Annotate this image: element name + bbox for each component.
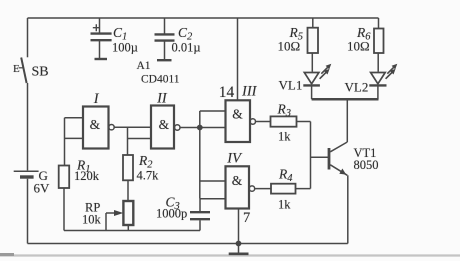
wire left rail middle: [27, 83, 29, 170]
capacitor C1 plates: [91, 34, 112, 41]
capacitor C2 leads: [164, 18, 166, 60]
capacitor C3 plates: [190, 212, 210, 219]
LED VL1: [304, 73, 319, 84]
wire left rail lower: [27, 179, 29, 244]
switch SB: [21, 58, 26, 84]
ground: [238, 244, 240, 254]
gate IV output bubble: [249, 186, 254, 191]
svg-text:CD4011: CD4011: [141, 73, 180, 85]
svg-text:IV: IV: [226, 150, 243, 166]
svg-text:100µ: 100µ: [112, 41, 138, 55]
svg-text:II: II: [156, 91, 168, 107]
LED VL1 arrows: [320, 67, 328, 78]
wire collector riser: [346, 99, 348, 142]
capacitor C1 plus sign: [93, 24, 100, 31]
wire RP bottom: [127, 225, 129, 231]
gate IV input stubs: [200, 181, 226, 199]
potentiometer RP: [123, 201, 133, 225]
LED VL2: [371, 73, 386, 84]
battery G plate short: [20, 175, 34, 178]
svg-text:10Ω: 10Ω: [347, 38, 370, 53]
svg-text:7: 7: [243, 210, 250, 226]
svg-text:0.01µ: 0.01µ: [172, 41, 201, 55]
resistor R5 leads: [311, 18, 314, 72]
resistor R3 leads: [256, 121, 311, 123]
wire top rail: [28, 17, 379, 19]
gate III input bracket: [200, 111, 226, 128]
svg-text:&: &: [90, 117, 101, 132]
wire gateI-out to gateII: [114, 126, 151, 128]
wire pin7 lead: [238, 209, 240, 244]
gate II box: [151, 106, 174, 149]
gate I input bracket: [65, 118, 84, 165]
gate II lower input branch to R2: [128, 127, 152, 155]
junction dot pin7/ground: [236, 241, 242, 247]
svg-text:&: &: [159, 117, 170, 132]
gate I box: [83, 107, 109, 149]
svg-text:4.7k: 4.7k: [137, 169, 160, 183]
transistor VT1 collector: [330, 142, 347, 152]
potentiometer RP wiper arrow: [106, 212, 115, 214]
gate III output bubble: [250, 119, 255, 124]
svg-text:120k: 120k: [74, 169, 100, 183]
page artifact line: [0, 254, 460, 256]
svg-text:1k: 1k: [278, 198, 291, 212]
resistor R1 leads: [63, 188, 65, 231]
gate III box: [226, 100, 251, 142]
svg-text:&: &: [232, 173, 243, 188]
resistor R4 leads: [255, 188, 311, 190]
battery G plate long: [14, 170, 39, 172]
capacitor C1 end bar: [95, 58, 108, 60]
transistor VT1 emitter: [330, 165, 347, 176]
wire emitter riser: [347, 175, 349, 243]
resistor R1: [59, 166, 69, 189]
resistor R3: [271, 116, 297, 126]
wire wiper down: [105, 213, 107, 231]
svg-text:I: I: [93, 91, 100, 107]
svg-text:R4: R4: [278, 167, 293, 185]
gate IV box: [226, 166, 250, 208]
svg-text:E: E: [13, 63, 20, 75]
svg-text:R3: R3: [277, 102, 292, 120]
svg-text:10Ω: 10Ω: [278, 38, 301, 53]
resistor R6 leads: [377, 18, 379, 72]
svg-text:III: III: [241, 83, 258, 99]
resistor R2 bottom lead: [127, 180, 129, 201]
capacitor C1 leads: [99, 18, 101, 58]
wire left rail upper: [27, 18, 29, 57]
junction node dot: [197, 125, 203, 131]
gate II output bubble: [175, 125, 180, 130]
svg-text:SB: SB: [32, 65, 49, 80]
svg-text:1k: 1k: [278, 130, 291, 144]
svg-text:6V: 6V: [34, 181, 51, 196]
wire bottom rail: [28, 243, 348, 245]
svg-text:&: &: [232, 106, 243, 121]
gate I output bubble: [109, 125, 114, 130]
svg-text:A1: A1: [137, 60, 151, 72]
capacitor C3 leads: [199, 199, 201, 231]
capacitor C2 end bar: [157, 59, 172, 61]
transistor VT1 base lead: [311, 156, 330, 158]
wire node rail down: [199, 128, 201, 199]
svg-text:10k: 10k: [82, 213, 102, 227]
wire R3-R4 riser: [310, 122, 312, 189]
LED VL2 arrows: [386, 67, 394, 78]
svg-text:14: 14: [219, 84, 235, 101]
transistor VT1 base bar: [328, 148, 331, 170]
wire pin14 lead: [237, 18, 239, 100]
capacitor C2 plates: [155, 34, 175, 40]
wire inner bottom: [64, 230, 200, 232]
wire cathode bus: [312, 98, 379, 101]
resistor R5: [308, 28, 319, 53]
svg-text:1000p: 1000p: [156, 206, 187, 220]
wire gateII-out to gateIII: [180, 127, 226, 129]
resistor R2: [123, 155, 133, 180]
svg-text:VL1: VL1: [279, 78, 303, 93]
svg-text:8050: 8050: [354, 158, 379, 172]
svg-text:VL2: VL2: [345, 80, 369, 95]
resistor R4: [271, 184, 296, 194]
resistor R6: [374, 29, 384, 54]
